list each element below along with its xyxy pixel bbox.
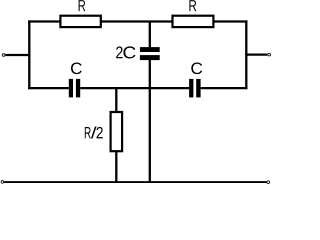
wire: middle rail left segment (input node to C1) xyxy=(28,87,69,89)
wire: R/2 bottom lead to bottom rail xyxy=(115,152,117,182)
wire: output lead xyxy=(245,53,267,55)
wire: R/2 top lead from middle rail xyxy=(115,87,117,112)
capacitor C2 left plate xyxy=(189,79,193,98)
label R/2 xyxy=(85,126,103,138)
resistor R (right) xyxy=(173,16,214,27)
wire: middle rail center segment (C1 to C2, crossing center vertical) xyxy=(80,87,189,89)
label C (right capacitor) xyxy=(191,62,202,74)
capacitor 2C bottom plate xyxy=(140,55,160,60)
node: bottom-left terminal circle xyxy=(1,181,4,184)
capacitor C1 right plate xyxy=(76,79,80,98)
resistor R/2 xyxy=(111,112,123,151)
node: output terminal circle xyxy=(268,53,271,56)
node: input terminal circle xyxy=(2,54,5,57)
wire: 2C top lead from top rail xyxy=(149,22,151,48)
wire: bottom rail (ground return) xyxy=(4,181,266,183)
capacitor C2 right plate xyxy=(196,79,200,98)
wire: left vertical rail xyxy=(28,20,30,89)
wire: middle rail right segment (C2 to output node) xyxy=(201,87,248,89)
wire: right vertical rail xyxy=(245,20,247,89)
wire: top rail from left vertical to right vertical xyxy=(28,20,247,22)
node: bottom-right terminal circle xyxy=(267,181,270,184)
label 2C xyxy=(116,46,135,58)
wire: input lead xyxy=(5,54,30,56)
resistor R (left) xyxy=(60,16,100,27)
capacitor 2C top plate xyxy=(140,47,160,52)
label R (right resistor) xyxy=(189,0,196,11)
label R (left resistor) xyxy=(79,0,86,11)
label C (left capacitor) xyxy=(71,62,82,74)
capacitor C1 left plate xyxy=(69,79,73,98)
wire: center vertical from 2C down to bottom rail xyxy=(149,60,151,182)
